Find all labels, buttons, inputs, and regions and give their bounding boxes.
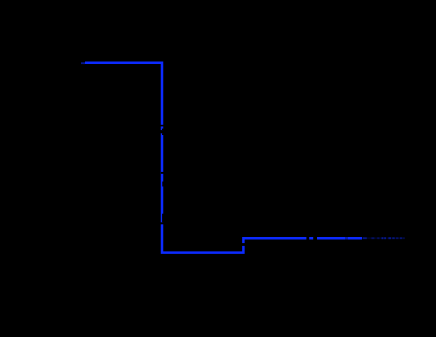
occlusion gap top-right segment a bbox=[306, 237, 309, 240]
occlusion notch vertical cluster 1c bbox=[160, 130, 165, 133]
tail dash 4 bbox=[382, 237, 384, 239]
tail dash 5 bbox=[384, 237, 386, 239]
occlusion notch vertical cluster 1a bbox=[160, 125, 166, 127]
occlusion notch vertical cluster 1b bbox=[162, 129, 165, 131]
occlusion gap top-right segment b bbox=[313, 237, 317, 240]
occlusion notch vertical cluster 1d bbox=[162, 133, 165, 135]
step trace main path bbox=[85, 63, 362, 253]
tail dash 7 bbox=[392, 237, 394, 239]
tail dash 6 bbox=[388, 237, 391, 239]
occlusion notch vertical 2b bbox=[162, 182, 165, 187]
tail faint base glow bbox=[362, 237, 405, 239]
tail dash 2 bbox=[371, 237, 374, 239]
occlusion dim top-right segment c bbox=[345, 237, 348, 240]
tail dash 10 bbox=[403, 237, 405, 239]
tail dash 3 bbox=[377, 237, 379, 239]
occlusion notch vertical 2 bbox=[161, 172, 165, 174]
tail dash 9 bbox=[400, 237, 402, 239]
wire lead-in dim dash bbox=[81, 62, 85, 64]
occlusion notch vertical 3b bbox=[160, 222, 166, 224]
occlusion notch vertical 3a bbox=[162, 214, 165, 223]
tail dash 1 bbox=[363, 237, 367, 239]
occlusion notch step riser bbox=[242, 243, 245, 246]
tail dash 8 bbox=[396, 237, 398, 239]
